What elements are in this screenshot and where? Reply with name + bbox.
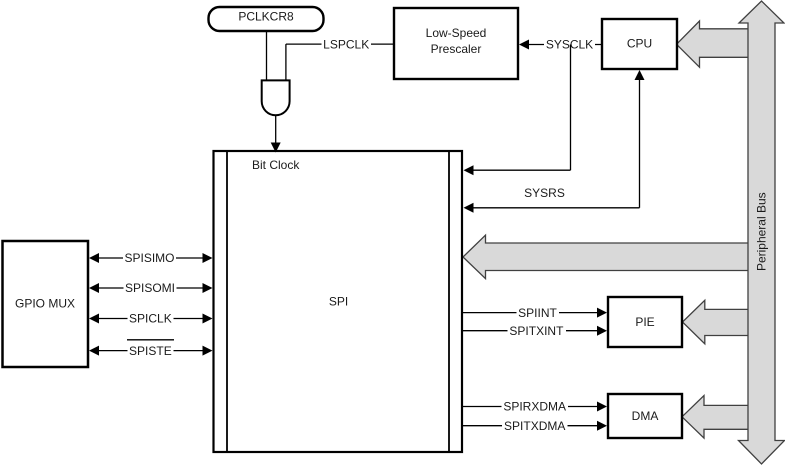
svg-text:LSPCLK: LSPCLK [323, 37, 369, 51]
label LSPCLK [322, 37, 372, 51]
label SYSCLK [544, 38, 595, 52]
svg-text:Peripheral Bus: Peripheral Bus [755, 192, 769, 271]
wire SPISOMI bidirectional [97, 287, 204, 289]
wire AND gate output with arrow into SPI [275, 115, 277, 143]
block GPIO MUX [3, 241, 89, 367]
overline for SPISTE [127, 339, 174, 341]
svg-text:SPICLK: SPICLK [129, 312, 172, 326]
SPI inner right rail [448, 152, 450, 451]
svg-text:DMA: DMA [632, 409, 659, 423]
wire SPITXDMA with arrow into DMA [463, 425, 600, 427]
bus branch arrow to PIE [683, 300, 763, 344]
block PIE [608, 297, 682, 347]
wire LSPCLK vertical [285, 44, 287, 80]
bus branch arrow to DMA [682, 396, 762, 439]
wire PCLKCR8 stem [266, 31, 268, 80]
wire SYSRS horizontal with arrow into SPI [472, 207, 640, 209]
svg-text:SPITXINT: SPITXINT [509, 324, 564, 338]
svg-text:SPIINT: SPIINT [518, 306, 557, 320]
svg-text:Prescaler: Prescaler [431, 42, 482, 56]
wire SPIINT with arrow into PIE [463, 312, 600, 314]
svg-text:SPISOMI: SPISOMI [125, 281, 175, 295]
wire SPISIMO bidirectional [97, 257, 204, 259]
block SPI [214, 151, 463, 452]
svg-text:SYSRS: SYSRS [524, 186, 565, 200]
AND gate [262, 80, 290, 115]
peripheral bus vertical double arrow [739, 1, 785, 464]
svg-text:PIE: PIE [635, 315, 654, 329]
block PCLKCR8 (stadium) [209, 7, 324, 31]
block DMA [608, 394, 682, 438]
wire SYSCLK with arrow into prescaler [527, 44, 602, 46]
wire LSPCLK horizontal [286, 43, 394, 45]
bus branch arrow to CPU [677, 21, 763, 67]
svg-text:Low-Speed: Low-Speed [426, 26, 487, 40]
svg-text:GPIO MUX: GPIO MUX [15, 296, 75, 310]
svg-text:CPU: CPU [627, 37, 652, 51]
block Low-Speed Prescaler [394, 8, 518, 79]
bus branch arrow to SPI [463, 235, 762, 278]
svg-text:SPIRXDMA: SPIRXDMA [503, 400, 566, 414]
svg-text:Bit Clock: Bit Clock [252, 158, 300, 172]
svg-text:SPISTE: SPISTE [129, 344, 172, 358]
svg-text:SPITXDMA: SPITXDMA [504, 419, 565, 433]
svg-text:SYSCLK: SYSCLK [546, 38, 593, 52]
svg-text:PCLKCR8: PCLKCR8 [238, 10, 294, 24]
wire SYSRS vertical with arrow into CPU [639, 78, 641, 208]
wire SPISTE bidirectional [97, 350, 204, 352]
svg-text:SPI: SPI [329, 295, 348, 309]
svg-text:SPISIMO: SPISIMO [124, 251, 174, 265]
wire SPICLK bidirectional [97, 318, 204, 320]
SPI inner left rail [226, 152, 228, 451]
block CPU [602, 19, 677, 69]
wire SYSCLK drop to SPI [570, 45, 572, 171]
wire SPITXINT with arrow into PIE [463, 330, 600, 332]
wire SPIRXDMA with arrow into DMA [463, 406, 600, 408]
